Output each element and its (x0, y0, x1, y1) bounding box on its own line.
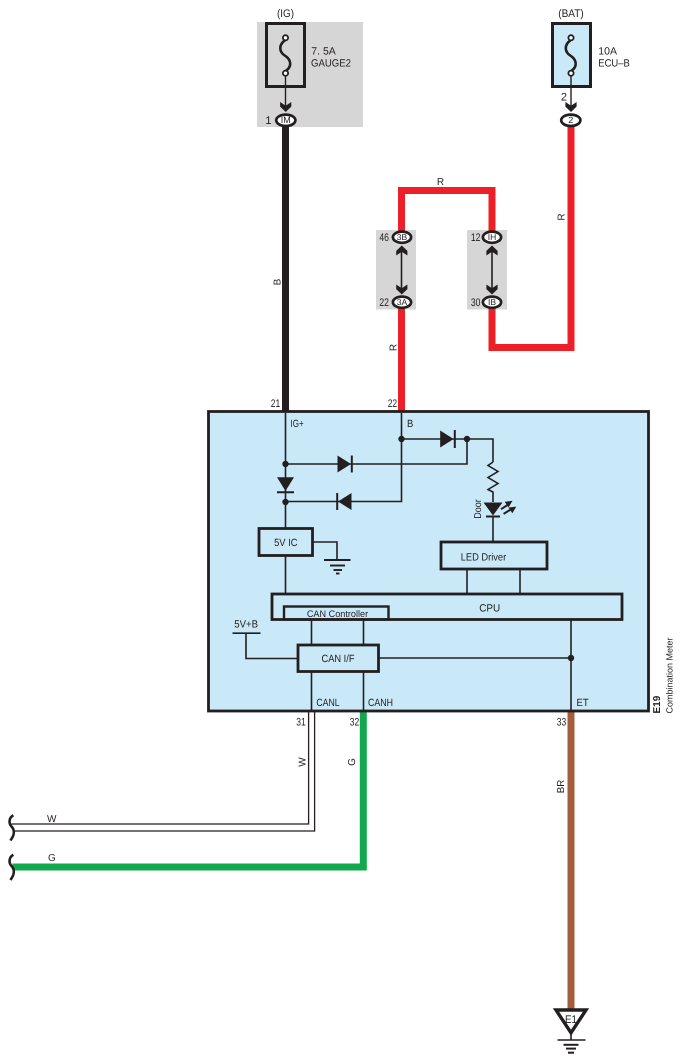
svg-text:IM: IM (281, 115, 291, 125)
svg-text:21: 21 (271, 398, 281, 410)
svg-text:3B: 3B (397, 232, 408, 242)
svg-text:5V IC: 5V IC (274, 537, 298, 549)
svg-text:IG+: IG+ (291, 418, 304, 430)
svg-text:CANH: CANH (368, 697, 393, 709)
svg-text:ET: ET (577, 697, 590, 709)
svg-text:R: R (437, 177, 444, 188)
svg-text:Combination Meter: Combination Meter (665, 637, 675, 713)
svg-text:R: R (389, 344, 400, 351)
svg-text:Door: Door (473, 499, 484, 519)
svg-text:1: 1 (265, 115, 271, 127)
svg-text:B: B (273, 278, 284, 285)
svg-text:2: 2 (561, 92, 567, 104)
svg-text:5V+B: 5V+B (234, 619, 258, 631)
svg-text:W: W (298, 757, 309, 767)
svg-text:3A: 3A (397, 297, 408, 307)
svg-text:CPU: CPU (479, 602, 500, 614)
svg-text:7. 5A: 7. 5A (311, 45, 336, 57)
svg-text:(IG): (IG) (277, 8, 294, 20)
svg-text:CANL: CANL (316, 697, 339, 709)
svg-text:E1: E1 (565, 1014, 577, 1026)
svg-text:E19: E19 (652, 695, 663, 713)
svg-text:BR: BR (556, 780, 567, 794)
svg-text:W: W (47, 814, 57, 825)
svg-text:IH: IH (488, 232, 497, 242)
svg-text:30: 30 (471, 297, 481, 309)
svg-text:33: 33 (557, 716, 567, 728)
svg-text:32: 32 (350, 716, 360, 728)
svg-text:2: 2 (568, 115, 573, 125)
svg-text:G: G (48, 853, 56, 864)
svg-text:IB: IB (488, 297, 496, 307)
svg-text:31: 31 (296, 716, 306, 728)
svg-text:46: 46 (379, 232, 389, 244)
svg-text:22: 22 (388, 398, 398, 410)
svg-text:10A: 10A (598, 45, 617, 57)
svg-text:GAUGE2: GAUGE2 (311, 57, 351, 69)
svg-text:22: 22 (379, 297, 389, 309)
svg-text:B: B (407, 418, 413, 430)
svg-text:(BAT): (BAT) (558, 8, 584, 20)
svg-text:CAN I/F: CAN I/F (322, 653, 355, 665)
svg-text:R: R (557, 213, 568, 220)
svg-text:CAN Controller: CAN Controller (307, 609, 368, 620)
svg-text:G: G (347, 758, 358, 766)
svg-text:ECU–B: ECU–B (598, 57, 630, 69)
svg-text:12: 12 (471, 232, 481, 244)
svg-text:LED Driver: LED Driver (461, 552, 507, 564)
